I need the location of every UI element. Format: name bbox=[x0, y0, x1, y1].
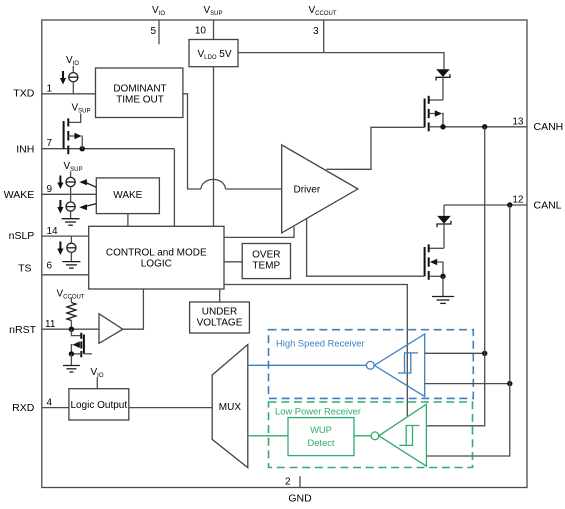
svg-text:Low Power Receiver: Low Power Receiver bbox=[275, 405, 361, 416]
dashed box Low Power Receiver bbox=[269, 402, 473, 468]
pin 7 INH bbox=[16, 138, 174, 155]
svg-text:6: 6 bbox=[47, 260, 53, 271]
svg-text:GND: GND bbox=[288, 493, 312, 505]
comparator LP receiver bbox=[371, 404, 426, 466]
svg-text:WAKE: WAKE bbox=[4, 189, 35, 201]
svg-text:INH: INH bbox=[16, 143, 34, 155]
svg-text:OVER: OVER bbox=[252, 250, 280, 261]
svg-text:12: 12 bbox=[512, 195, 524, 206]
comparator HS receiver bbox=[366, 334, 424, 397]
svg-text:3: 3 bbox=[313, 26, 319, 37]
transistor Q4 (nRST pulldown) bbox=[71, 329, 91, 357]
node VCCOUT (top pin 3) bbox=[309, 5, 337, 53]
svg-text:CONTROL and MODE: CONTROL and MODE bbox=[106, 248, 207, 259]
transistor Q1 (CANH driver MOSFET) bbox=[425, 96, 443, 132]
junction INH drain node bbox=[80, 146, 85, 151]
svg-text:CANL: CANL bbox=[534, 199, 562, 211]
junction at Q2 source bbox=[440, 274, 445, 279]
svg-text:TS: TS bbox=[18, 263, 31, 275]
wire Logic Output to MUX bbox=[129, 407, 212, 409]
svg-text:CANH: CANH bbox=[534, 121, 564, 133]
wire control to receiver enable bbox=[224, 285, 407, 417]
svg-text:5: 5 bbox=[150, 26, 156, 37]
ground (nSLP input) bbox=[62, 262, 80, 269]
svg-text:VOLTAGE: VOLTAGE bbox=[197, 318, 243, 329]
wire driver bottom output to Q2 gate bbox=[307, 219, 425, 277]
ground (nRST stage) bbox=[63, 366, 80, 373]
svg-text:High Speed Receiver: High Speed Receiver bbox=[276, 338, 365, 349]
svg-text:VSUP: VSUP bbox=[64, 161, 83, 173]
wire INH to control logic bbox=[173, 149, 175, 227]
junction CANH to receiver sense line bbox=[482, 124, 487, 129]
block DOMINANT TIME OUT bbox=[96, 68, 183, 118]
junction CANL to receiver sense line bbox=[507, 202, 512, 207]
svg-text:Logic Output: Logic Output bbox=[70, 400, 127, 411]
resistor R1 (nRST pullup to VCCOUT) bbox=[57, 289, 85, 330]
mux MUX bbox=[212, 345, 248, 468]
svg-text:2: 2 bbox=[285, 477, 291, 488]
current source I2 (WAKE upper, from VSUP) bbox=[57, 161, 82, 194]
pin 11 nRST bbox=[9, 319, 99, 336]
ground (WAKE inputs) bbox=[62, 219, 80, 226]
svg-text:Driver: Driver bbox=[294, 184, 321, 195]
block WUP Detect bbox=[288, 418, 354, 456]
arrow WAKE block to lower source bbox=[79, 204, 96, 211]
junction at Q1 source on CANH bbox=[440, 124, 445, 129]
pin 6 TS bbox=[18, 260, 89, 275]
current source I1 (TXD pullup to VIO) bbox=[60, 55, 79, 94]
svg-text:MUX: MUX bbox=[219, 402, 242, 413]
svg-text:VCCOUT: VCCOUT bbox=[309, 5, 337, 17]
wire CANH net bbox=[443, 126, 527, 128]
junction on CANL sense bbox=[507, 381, 512, 386]
svg-text:VSUP: VSUP bbox=[72, 103, 91, 115]
wire CANL sense line down to LP receiver bbox=[426, 205, 509, 456]
wire WUP Detect to LP comparator (green) bbox=[354, 435, 371, 437]
svg-text:1: 1 bbox=[47, 83, 53, 94]
junction on CANH sense bbox=[482, 351, 487, 356]
wire CANH sense line down to LP receiver bbox=[426, 127, 484, 426]
outer device boundary box bbox=[42, 20, 527, 488]
node VIO (top pin 5) bbox=[150, 5, 165, 44]
svg-text:UNDER: UNDER bbox=[202, 307, 238, 318]
pin 9 WAKE bbox=[4, 184, 97, 201]
svg-text:nSLP: nSLP bbox=[9, 230, 35, 242]
wire HS receiver input from CANL bbox=[425, 383, 510, 385]
svg-text:DOMINANT: DOMINANT bbox=[113, 83, 166, 94]
svg-text:4: 4 bbox=[47, 397, 53, 408]
wire HS receiver input from CANH bbox=[425, 352, 485, 354]
pin 12 CANL label bbox=[512, 195, 561, 212]
wire DOMINANT TIME OUT to driver input (with hop over VSUP) bbox=[183, 94, 281, 189]
svg-text:WUP: WUP bbox=[310, 424, 332, 435]
pin 14 nSLP bbox=[9, 226, 89, 242]
wire WAKE block to control logic bbox=[127, 214, 129, 227]
wire control to driver enable bbox=[224, 227, 294, 238]
svg-text:TIME OUT: TIME OUT bbox=[116, 94, 164, 105]
node VSUP (top pin 10) bbox=[195, 5, 223, 226]
wire Q2 source to ground bbox=[442, 276, 444, 296]
svg-text:13: 13 bbox=[512, 116, 524, 127]
op-amp buffer (nRST) bbox=[99, 314, 123, 344]
schottky diode D1 (CANH high side) bbox=[436, 69, 450, 100]
svg-text:7: 7 bbox=[47, 138, 53, 149]
pin 1 TXD bbox=[13, 83, 95, 99]
block CONTROL and MODE LOGIC bbox=[89, 226, 224, 289]
svg-text:10: 10 bbox=[195, 26, 207, 37]
svg-text:TXD: TXD bbox=[13, 88, 34, 100]
svg-text:VSUP: VSUP bbox=[204, 5, 223, 17]
pin 4 RXD bbox=[12, 397, 69, 414]
wire HS receiver output to MUX (blue) bbox=[248, 364, 367, 366]
svg-text:nRST: nRST bbox=[9, 324, 36, 336]
node VIO (logic output supply) bbox=[91, 367, 104, 389]
regulator VLDO 5V bbox=[189, 40, 238, 67]
block Logic Output bbox=[69, 389, 129, 420]
block WAKE bbox=[96, 178, 159, 214]
svg-text:VCCOUT: VCCOUT bbox=[57, 289, 85, 301]
ground (CANL stage) bbox=[432, 297, 454, 304]
wire CANL net bbox=[444, 204, 527, 206]
wire VLDO output rail to CANH diode bbox=[238, 53, 444, 69]
svg-text:TEMP: TEMP bbox=[252, 260, 280, 271]
block OVER TEMP bbox=[242, 244, 290, 279]
pin 2 GND bbox=[285, 476, 312, 504]
wire MUX to WUP Detect (green) bbox=[248, 435, 288, 437]
svg-text:Detect: Detect bbox=[307, 437, 334, 448]
current source I4 (nSLP to ground) bbox=[57, 236, 76, 262]
op-amp Driver bbox=[282, 145, 358, 233]
schottky diode D2 (CANL low side) bbox=[437, 205, 451, 248]
svg-text:VIO: VIO bbox=[66, 55, 79, 67]
current source I3 (WAKE lower, to ground) bbox=[57, 194, 75, 218]
dashed box High Speed Receiver bbox=[269, 330, 474, 399]
svg-text:RXD: RXD bbox=[12, 402, 35, 414]
svg-text:9: 9 bbox=[47, 184, 53, 195]
arrow WAKE block to upper source bbox=[79, 179, 96, 187]
junction Q4 source node bbox=[69, 351, 74, 356]
junction nRST node bbox=[69, 327, 74, 332]
wire driver top output to Q1 gate bbox=[327, 127, 425, 169]
wire Q4 source to ground bbox=[70, 354, 72, 366]
block UNDER VOLTAGE bbox=[190, 289, 250, 333]
wire control to over temp bbox=[224, 261, 242, 263]
svg-text:VIO: VIO bbox=[152, 5, 165, 17]
pin 13 CANH label bbox=[512, 116, 563, 133]
transistor Q2 (CANL driver MOSFET) bbox=[425, 244, 444, 279]
transistor Q3 (INH pull-up from VSUP) bbox=[64, 103, 91, 155]
svg-text:WAKE: WAKE bbox=[113, 190, 142, 201]
wire buffer output to control logic bbox=[123, 289, 144, 329]
svg-text:LOGIC: LOGIC bbox=[141, 259, 172, 270]
